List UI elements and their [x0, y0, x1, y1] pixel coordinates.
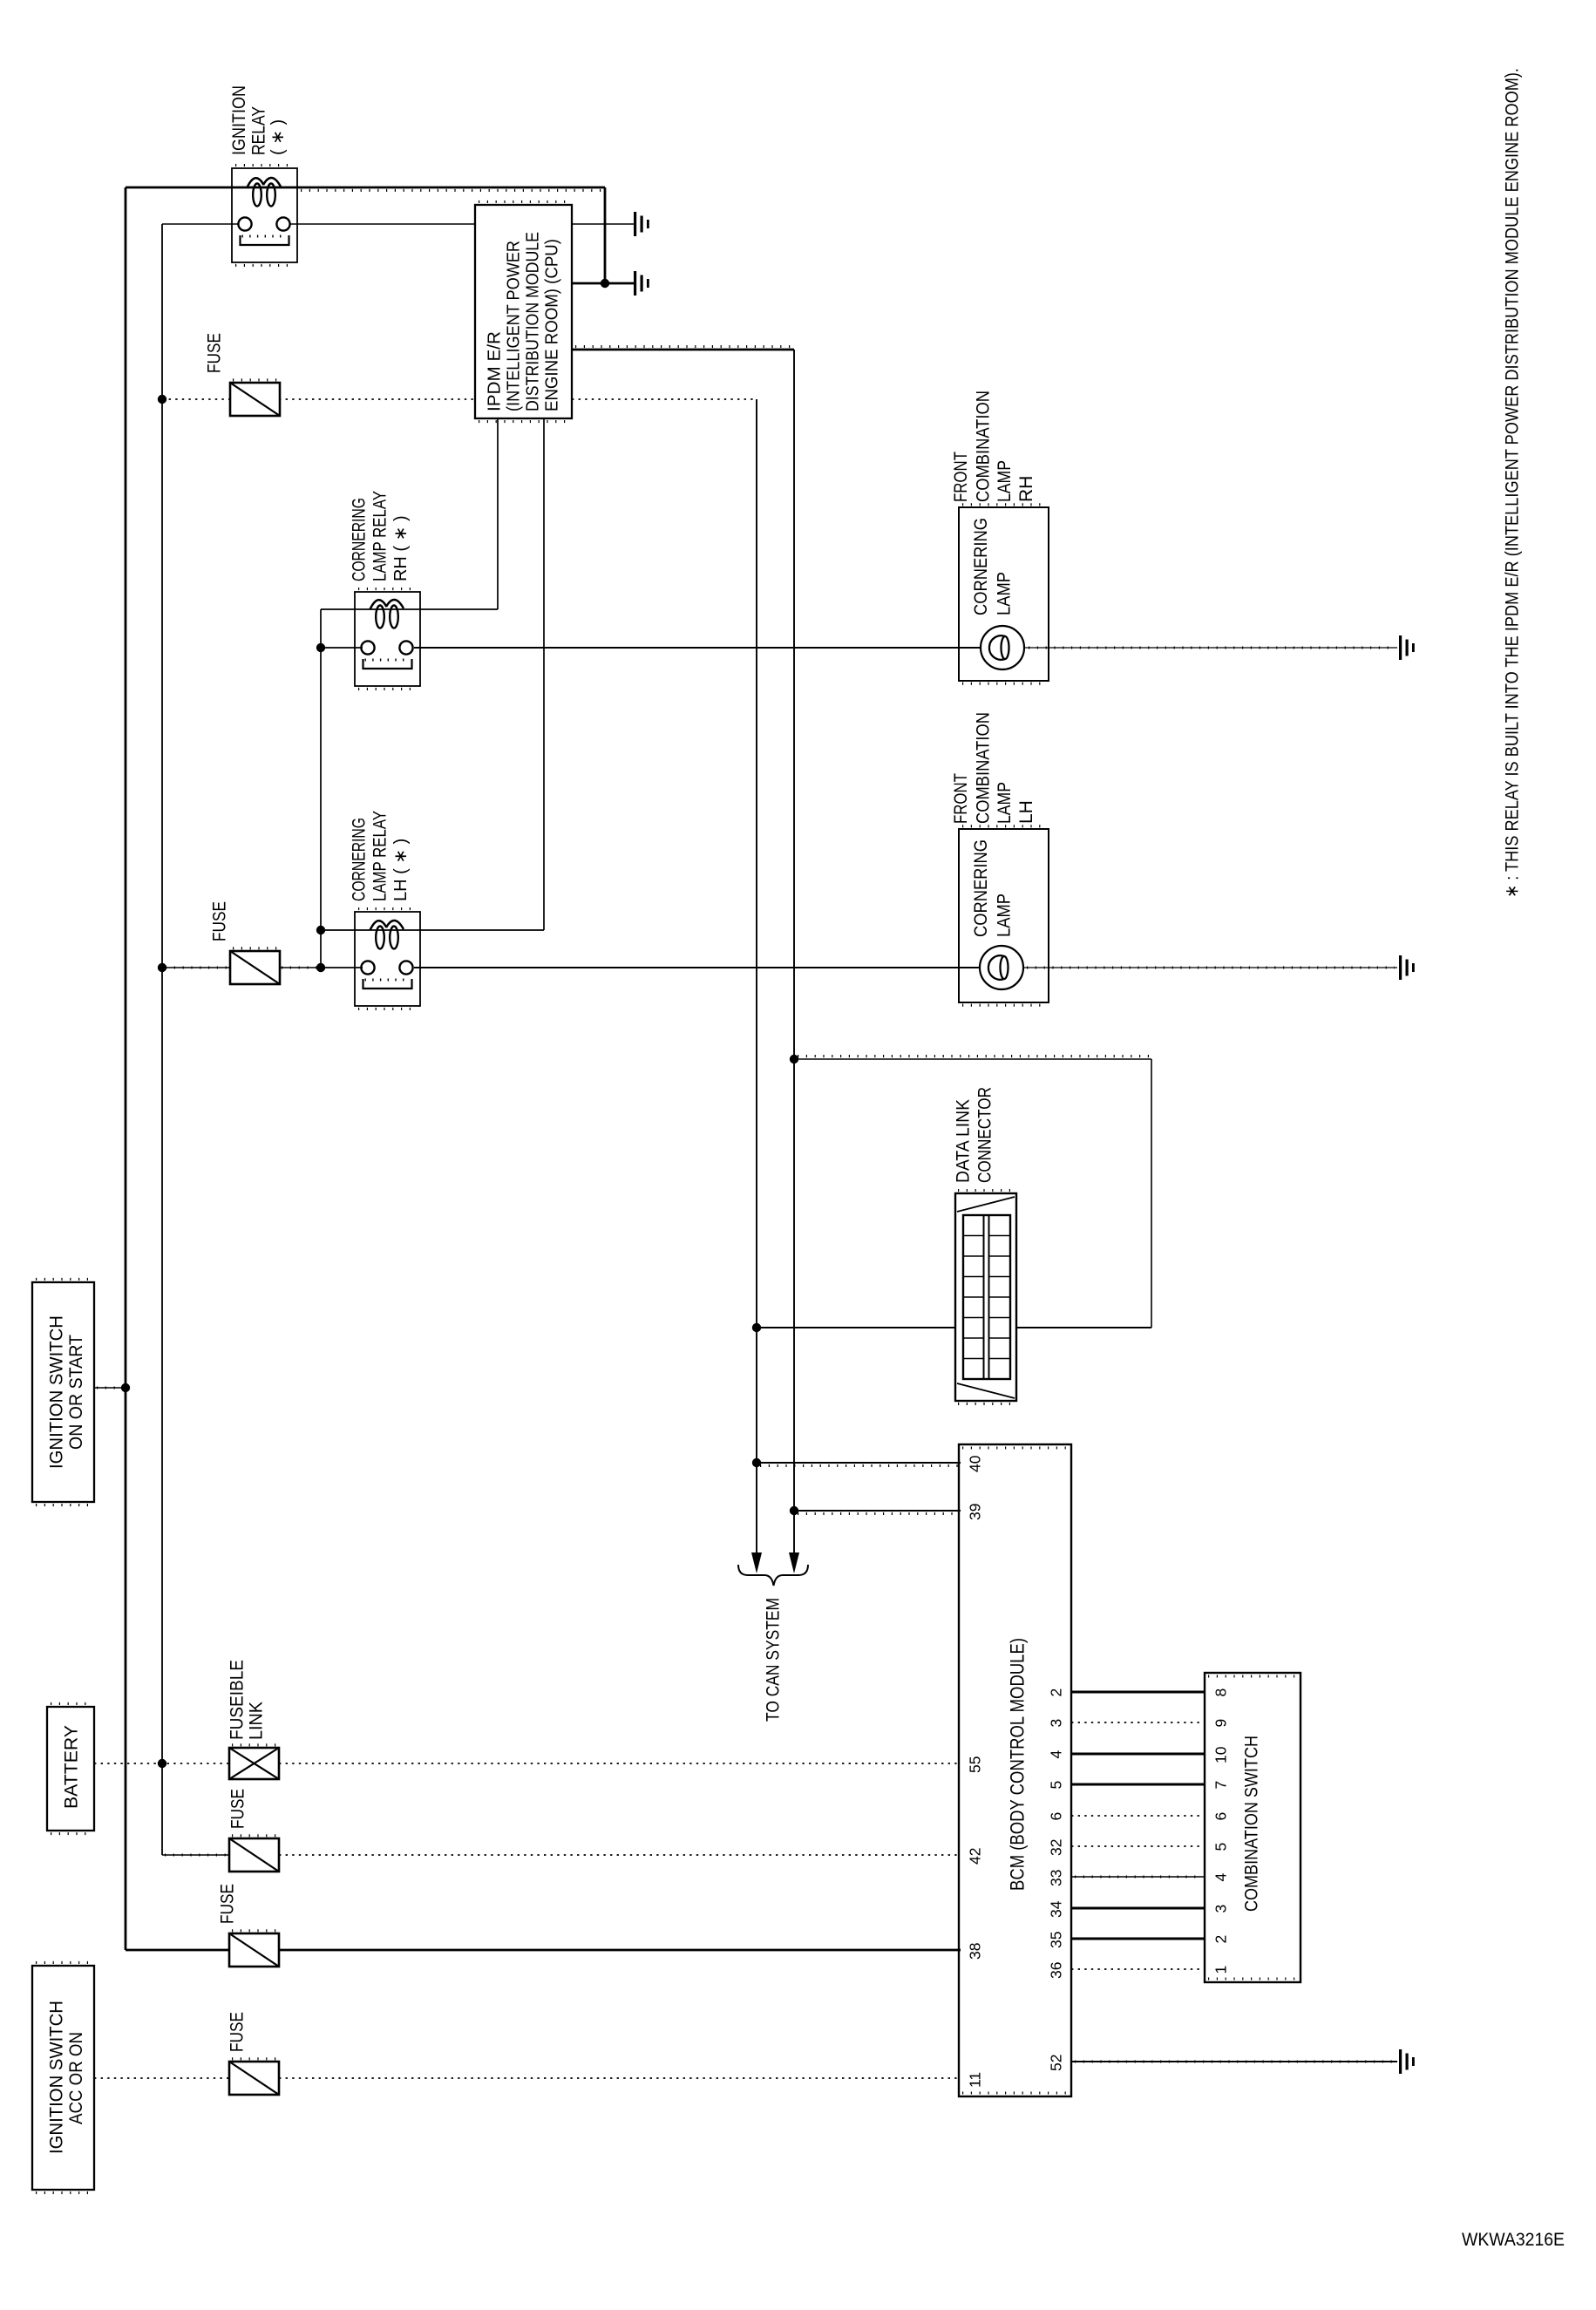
- svg-text:55: 55: [966, 1756, 983, 1773]
- svg-text:10: 10: [1212, 1746, 1229, 1763]
- svg-text:6: 6: [1212, 1812, 1229, 1821]
- svg-text:3: 3: [1047, 1719, 1064, 1728]
- svg-text:4: 4: [1212, 1873, 1229, 1882]
- svg-text:FUSE: FUSE: [205, 333, 225, 373]
- svg-text:39: 39: [966, 1504, 983, 1520]
- svg-text:CORNERING: CORNERING: [971, 518, 991, 615]
- svg-text:DISTRIBUTION MODULE: DISTRIBUTION MODULE: [522, 232, 542, 411]
- svg-text:34: 34: [1047, 1900, 1064, 1918]
- svg-text:4: 4: [1047, 1750, 1064, 1759]
- svg-text:CONNECTOR: CONNECTOR: [975, 1087, 995, 1183]
- svg-text:( ∗ ): ( ∗ ): [268, 119, 288, 155]
- svg-text:ACC OR ON: ACC OR ON: [66, 2032, 86, 2124]
- svg-text:COMBINATION SWITCH: COMBINATION SWITCH: [1241, 1736, 1262, 1912]
- svg-text:36: 36: [1047, 1962, 1064, 1979]
- svg-text:RH: RH: [1016, 476, 1036, 502]
- svg-text:(INTELLIGENT POWER: (INTELLIGENT POWER: [503, 241, 523, 411]
- svg-text:32: 32: [1047, 1839, 1064, 1856]
- svg-text:RH ( ∗ ): RH ( ∗ ): [391, 515, 411, 581]
- svg-text:FRONT: FRONT: [951, 452, 971, 502]
- svg-text:COMBINATION: COMBINATION: [974, 712, 994, 824]
- svg-text:FUSE: FUSE: [210, 901, 230, 941]
- svg-text:COMBINATION: COMBINATION: [974, 391, 994, 502]
- svg-text:1: 1: [1212, 1966, 1229, 1974]
- svg-text:IGNITION: IGNITION: [229, 85, 249, 155]
- svg-text:7: 7: [1212, 1781, 1229, 1790]
- svg-text:LAMP: LAMP: [995, 572, 1015, 615]
- svg-text:BCM (BODY CONTROL MODULE): BCM (BODY CONTROL MODULE): [1006, 1638, 1028, 1891]
- svg-text:TO CAN SYSTEM: TO CAN SYSTEM: [764, 1598, 784, 1722]
- svg-text:52: 52: [1047, 2055, 1064, 2071]
- svg-text:IGNITION SWITCH: IGNITION SWITCH: [47, 2001, 67, 2154]
- svg-text:3: 3: [1212, 1905, 1229, 1913]
- svg-text:35: 35: [1047, 1932, 1064, 1948]
- svg-text:LAMP: LAMP: [995, 782, 1015, 824]
- svg-text:FUSE: FUSE: [218, 1884, 238, 1924]
- svg-text:LH ( ∗ ): LH ( ∗ ): [391, 839, 411, 901]
- svg-text:CORNERING: CORNERING: [971, 839, 991, 937]
- svg-text:FUSE: FUSE: [228, 2012, 248, 2052]
- svg-text:IPDM E/R: IPDM E/R: [484, 331, 504, 411]
- svg-text:LAMP: LAMP: [995, 460, 1015, 502]
- svg-text:2: 2: [1212, 1935, 1229, 1944]
- svg-text:FUSEIBLE: FUSEIBLE: [228, 1660, 248, 1740]
- svg-text:LAMP RELAY: LAMP RELAY: [370, 491, 391, 581]
- svg-text:LH: LH: [1016, 800, 1036, 824]
- svg-text:LAMP: LAMP: [995, 893, 1015, 937]
- svg-text:LAMP RELAY: LAMP RELAY: [370, 811, 391, 901]
- svg-text:2: 2: [1047, 1688, 1064, 1697]
- svg-text:LINK: LINK: [247, 1702, 267, 1740]
- svg-text:ON OR START: ON OR START: [66, 1335, 86, 1450]
- svg-text:DATA LINK: DATA LINK: [953, 1099, 973, 1183]
- svg-text:38: 38: [966, 1943, 983, 1960]
- svg-text:FUSE: FUSE: [228, 1789, 248, 1829]
- svg-text:BATTERY: BATTERY: [62, 1725, 82, 1809]
- svg-text:5: 5: [1212, 1843, 1229, 1851]
- svg-text:∗ : THIS RELAY IS BUILT INTO T: ∗ : THIS RELAY IS BUILT INTO THE IPDM E/…: [1502, 68, 1523, 898]
- svg-text:RELAY: RELAY: [249, 106, 269, 155]
- svg-text:42: 42: [966, 1848, 983, 1865]
- svg-text:ENGINE ROOM) (CPU): ENGINE ROOM) (CPU): [541, 239, 561, 411]
- svg-text:IGNITION SWITCH: IGNITION SWITCH: [47, 1315, 67, 1469]
- svg-text:CORNERING: CORNERING: [350, 818, 370, 901]
- svg-text:9: 9: [1212, 1719, 1229, 1728]
- svg-text:33: 33: [1047, 1870, 1064, 1886]
- svg-text:WKWA3216E: WKWA3216E: [1462, 2230, 1565, 2250]
- svg-text:CORNERING: CORNERING: [350, 498, 370, 581]
- svg-text:11: 11: [966, 2072, 983, 2088]
- svg-text:8: 8: [1212, 1688, 1229, 1697]
- svg-text:40: 40: [966, 1455, 983, 1472]
- svg-text:5: 5: [1047, 1781, 1064, 1790]
- svg-text:6: 6: [1047, 1812, 1064, 1821]
- svg-text:FRONT: FRONT: [951, 773, 971, 824]
